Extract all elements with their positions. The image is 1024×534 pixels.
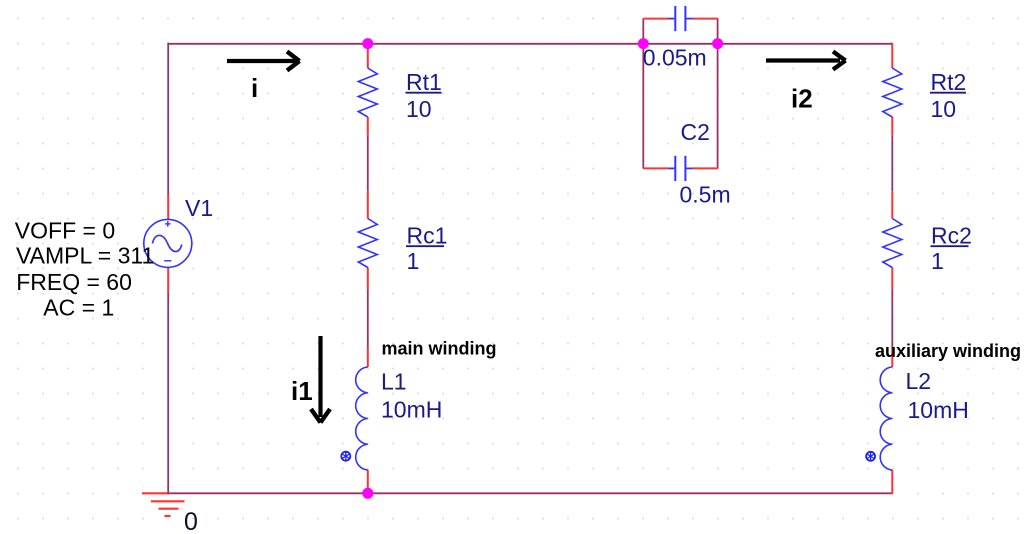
svg-text:10mH: 10mH — [381, 397, 442, 423]
current arrow i1 — [311, 336, 330, 423]
svg-text:main winding: main winding — [382, 339, 497, 359]
current arrow i — [227, 52, 300, 71]
svg-text:0: 0 — [184, 508, 198, 534]
svg-text:Rt2: Rt2 — [931, 69, 967, 95]
phase dot L1 — [341, 452, 350, 461]
svg-text:L2: L2 — [906, 368, 932, 394]
phase dot L2 — [866, 452, 875, 461]
pin Rc2 bottom — [891, 268, 893, 290]
svg-text:1: 1 — [931, 248, 944, 274]
junction node bottom of main winding branch — [362, 488, 373, 499]
pin Rt2 bottom — [891, 117, 893, 135]
svg-text:L1: L1 — [381, 369, 407, 395]
svg-text:i1: i1 — [291, 376, 313, 406]
resistor Rt1 — [358, 46, 377, 136]
current arrow i2 — [766, 52, 846, 70]
pin Rc1 bottom — [367, 268, 369, 290]
wire left rail upper (V1 top to top rail) — [167, 43, 169, 195]
pin Rt1 top — [367, 46, 369, 69]
svg-text:1: 1 — [407, 248, 420, 274]
pin Rc1 top — [367, 191, 369, 218]
svg-text:10mH: 10mH — [908, 397, 969, 423]
svg-text:auxiliary winding: auxiliary winding — [875, 341, 1021, 361]
wire cap loop bottom left vertical — [642, 43, 644, 169]
resistor Rc2 — [883, 191, 902, 289]
voltage source V1 — [144, 195, 192, 294]
wire mid branch between Rc1 and L1 — [367, 290, 369, 348]
ground 0 symbol bars — [142, 493, 185, 516]
capacitor C2 0.5m (bottom) — [643, 156, 717, 181]
inductor L1 — [356, 348, 368, 495]
resistor Rc1 — [358, 191, 377, 289]
pin C1 right — [692, 18, 718, 20]
wire right rail top corner — [890, 43, 893, 46]
svg-text:0.5m: 0.5m — [680, 181, 731, 207]
svg-text:i: i — [251, 73, 258, 103]
pin V1 bottom — [167, 267, 169, 294]
wire right branch between Rt2 and Rc2 — [891, 135, 893, 191]
junction node top of main winding branch — [362, 38, 373, 49]
svg-text:C2: C2 — [681, 119, 710, 145]
wire cap loop bottom right vertical — [717, 43, 719, 169]
svg-text:FREQ = 60: FREQ = 60 — [16, 269, 132, 295]
wire bottom rail — [168, 492, 892, 494]
svg-text:i2: i2 — [791, 84, 813, 114]
svg-text:AC = 1: AC = 1 — [43, 295, 114, 321]
svg-text:VAMPL = 311: VAMPL = 311 — [16, 242, 154, 268]
pin C1 left — [643, 18, 669, 20]
pin Rt1 bottom — [367, 117, 369, 135]
pin Rt2 top — [891, 45, 893, 69]
pin L1 bottom — [367, 470, 369, 494]
pin L1 top — [367, 348, 369, 368]
svg-text:VOFF = 0: VOFF = 0 — [15, 217, 115, 243]
svg-text:V1: V1 — [185, 195, 213, 221]
svg-text:Rc2: Rc2 — [931, 223, 972, 249]
pin C2 right — [692, 167, 718, 169]
wire left rail lower (V1 bottom to ground) — [167, 294, 169, 495]
inductor L2 — [880, 348, 892, 495]
wire cap loop top left vertical — [642, 19, 644, 45]
wire cap loop top right vertical — [717, 19, 719, 45]
pin V1 top — [167, 195, 169, 221]
svg-text:10: 10 — [406, 96, 432, 122]
svg-text:10: 10 — [931, 96, 957, 122]
pin C2 left — [643, 167, 669, 169]
wire right branch between Rc2 and L2 — [891, 290, 893, 348]
svg-text:0.05m: 0.05m — [643, 44, 707, 70]
capacitor C1 0.05m (top) — [643, 6, 717, 31]
junction node cap loop left — [638, 38, 649, 49]
pin Rc2 top — [891, 191, 893, 218]
wire top rail — [168, 43, 892, 45]
junction node cap loop right — [712, 38, 723, 49]
pin L2 top — [891, 348, 893, 368]
resistor Rt2 — [883, 45, 902, 136]
wire mid branch between Rt1 and Rc1 — [367, 135, 369, 191]
svg-text:Rt1: Rt1 — [406, 69, 442, 95]
svg-text:Rc1: Rc1 — [407, 223, 448, 249]
pin L2 bottom — [891, 470, 893, 494]
